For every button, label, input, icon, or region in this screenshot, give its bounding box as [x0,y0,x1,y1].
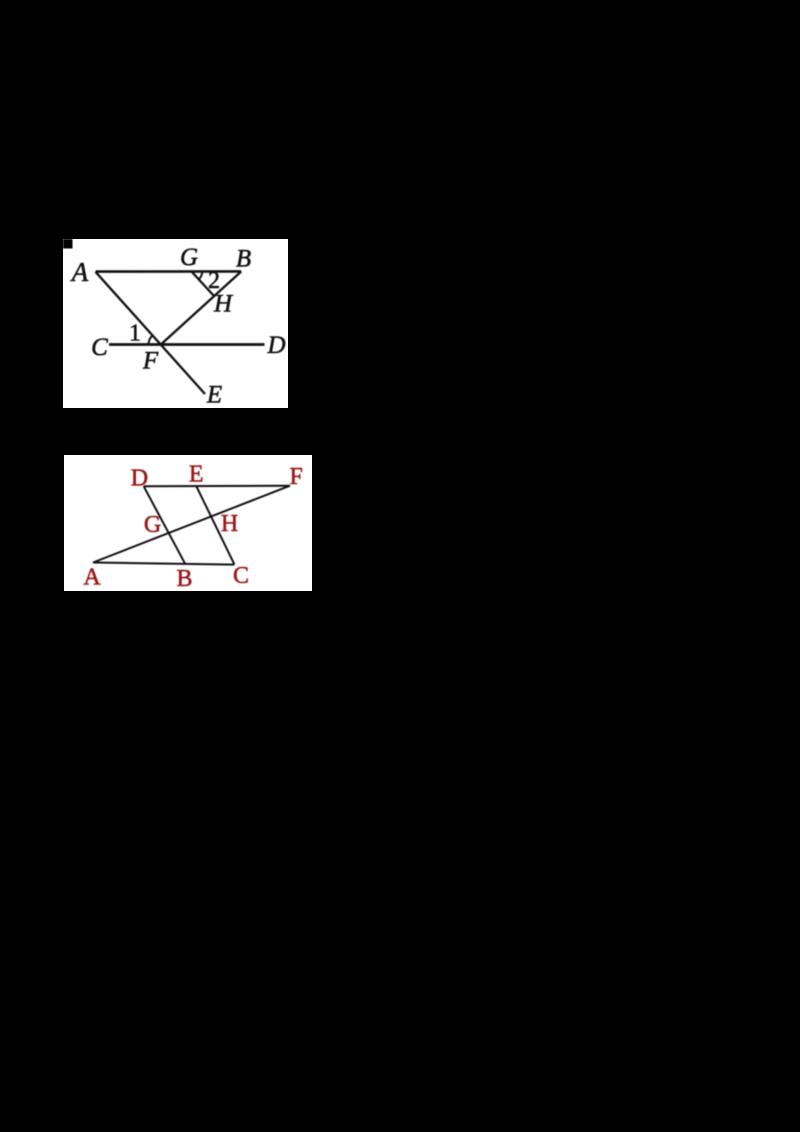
wire DF top line [144,485,290,488]
wire EC transversal [196,486,234,565]
svg-text:G: G [180,244,198,271]
svg-text:B: B [236,246,251,273]
wire AF diagonal [93,486,290,563]
svg-text:F: F [290,464,303,490]
svg-text:E: E [189,462,204,488]
svg-text:D: D [131,466,148,492]
wire AFE diagonal [96,272,206,394]
svg-text:B: B [176,566,192,591]
svg-text:G: G [144,512,161,538]
wire DB transversal [144,486,185,563]
diagram 1 panel [63,239,288,408]
svg-text:2: 2 [208,268,220,294]
svg-text:1: 1 [129,321,141,347]
wire AC bottom line [93,563,234,565]
angle arc at F [149,336,153,345]
svg-text:F: F [142,348,159,375]
diagram 2 panel [64,455,312,591]
wire BHF diagonal [161,272,242,345]
svg-text:H: H [213,291,234,318]
svg-text:A: A [70,257,89,287]
svg-text:E: E [206,382,222,409]
notch black top-left [63,239,73,249]
wire CD horizontal line [109,343,265,346]
svg-text:H: H [221,511,238,537]
svg-text:C: C [233,563,249,589]
angle arc at G [199,272,203,280]
svg-text:D: D [266,332,285,359]
svg-text:C: C [91,334,108,361]
wire GH segment [192,272,215,297]
svg-text:A: A [83,565,101,591]
wire AB top line [96,270,242,273]
